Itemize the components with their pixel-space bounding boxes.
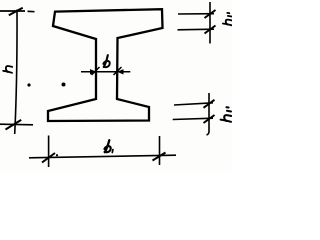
dimension h : top extension line — [0, 10, 35, 13]
dimension h : bottom tick — [6, 120, 22, 130]
dimension hf bottom-right : upper tick — [204, 100, 215, 108]
dimension bi : right tick — [153, 153, 166, 161]
dimension bi : left extension tick vertical — [48, 136, 50, 168]
dimension bi : right extension tick vertical — [159, 136, 161, 165]
dimension h'f top-right : upper tick — [205, 10, 216, 18]
dimension h : top tick — [9, 8, 23, 16]
dimension b : left arrowhead — [90, 69, 97, 74]
dimension h'f top-right : lower tick — [205, 26, 216, 34]
dimension b : left tick — [92, 67, 100, 75]
dimension h'f top-right : vertical line — [209, 2, 211, 44]
dimension b : horizontal line — [81, 71, 130, 73]
stray dot centre-left — [62, 83, 66, 87]
dimension h'f top-right : lower extension line — [178, 28, 215, 31]
label h — [3, 66, 12, 73]
dimension h'f top-right : upper extension line — [178, 13, 214, 15]
dimension h : vertical line left — [15, 10, 17, 135]
dimension bi bottom : horizontal line — [29, 155, 176, 158]
dimension hf bottom-right : vertical line — [207, 93, 210, 135]
label hf — [221, 107, 232, 122]
dimension hf bottom-right : upper extension line — [174, 103, 213, 105]
dimension b : right tick — [114, 67, 122, 75]
dimension bi : left tick — [42, 153, 55, 163]
dimension b : right arrowhead — [117, 69, 124, 74]
stray dot left — [27, 83, 30, 86]
dimension h : bottom extension line — [0, 123, 33, 126]
dimension hf bottom-right : lower extension line — [173, 118, 213, 119]
label h'f — [223, 13, 232, 25]
label b — [103, 55, 109, 67]
dimension hf bottom-right : lower tick — [204, 115, 215, 123]
beam cross-section outline — [48, 9, 163, 121]
label bi — [104, 140, 113, 152]
speck near left bi tick — [56, 154, 58, 156]
